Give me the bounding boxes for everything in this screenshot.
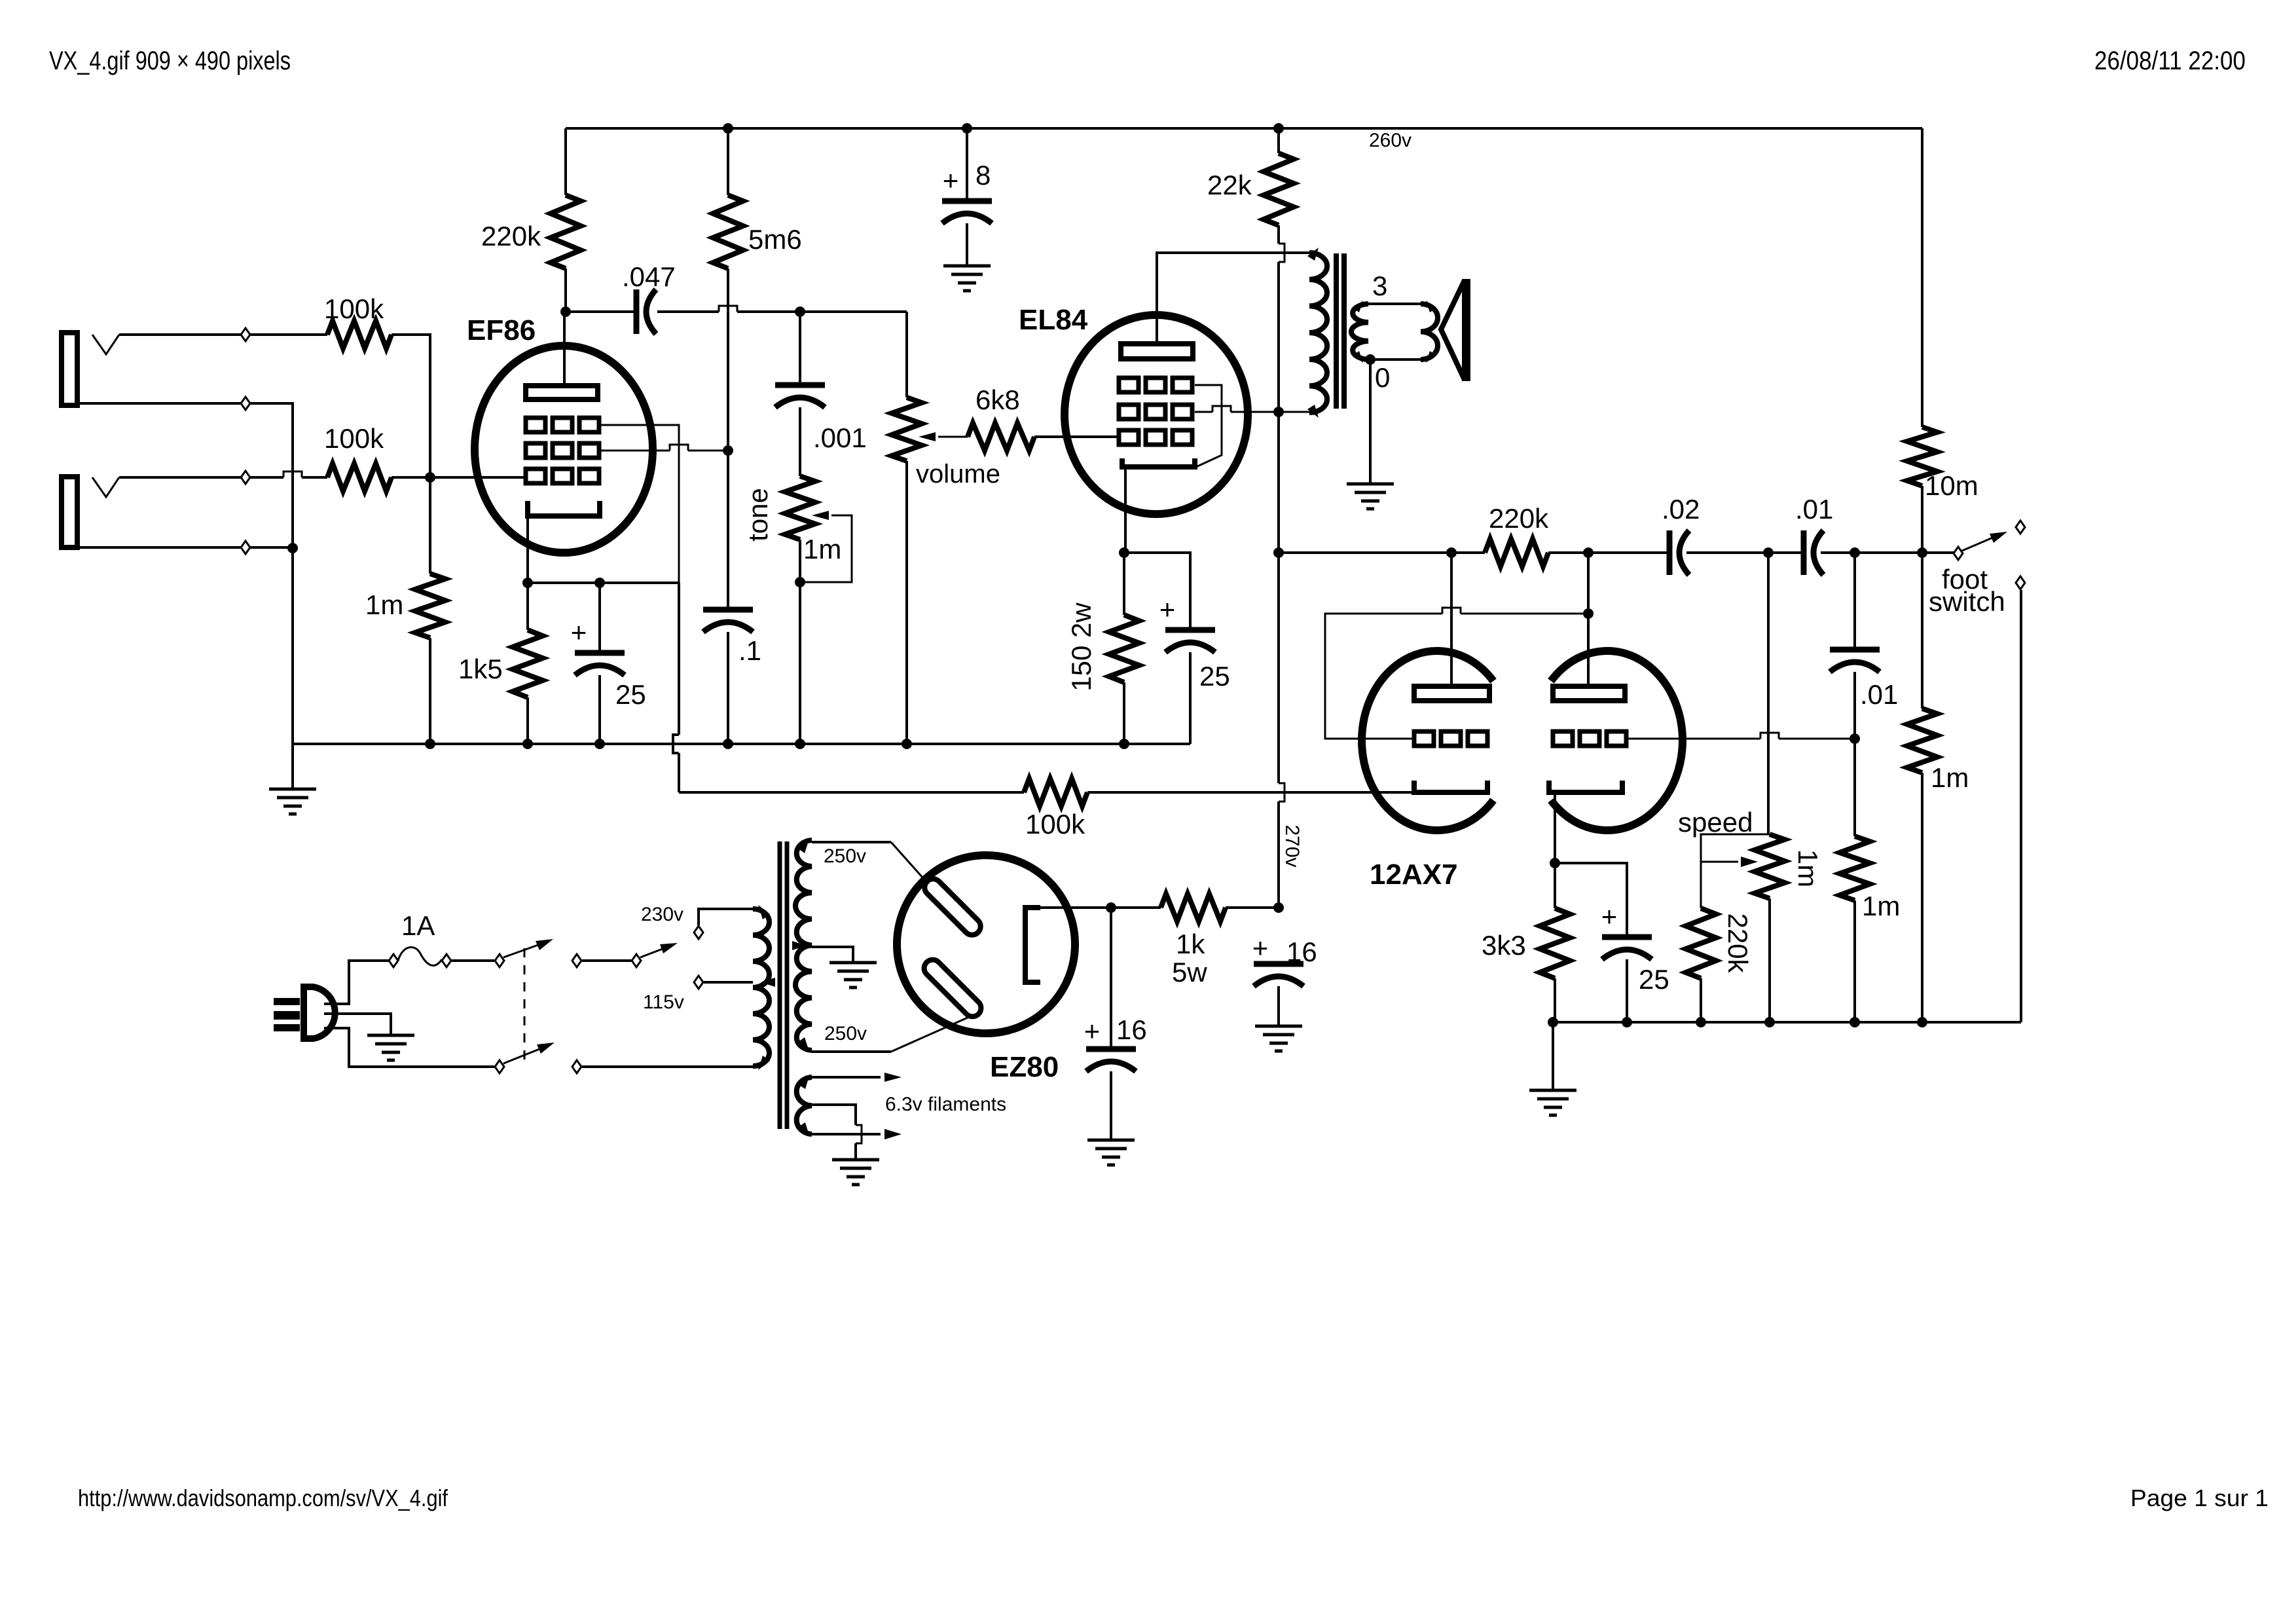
node junction EL84 cathode <box>1119 547 1129 558</box>
wire 5m6 top <box>727 128 729 195</box>
node tbus/1m lower <box>1850 1017 1860 1027</box>
wire cathode bus y=890 <box>528 581 679 584</box>
svg-text:270v: 270v <box>1281 824 1303 867</box>
fuse F 1A <box>389 947 451 967</box>
wire speed pot to bus <box>1768 898 1771 1022</box>
wire speed col <box>1767 553 1770 834</box>
svg-text:16: 16 <box>1286 936 1317 967</box>
label 1m (grid leak) <box>365 589 403 620</box>
ground symbol (16uF first) <box>1087 1140 1135 1165</box>
svg-text:.01: .01 <box>1860 679 1898 710</box>
resistor R 1m (lower) <box>1840 836 1870 900</box>
svg-text:1k5: 1k5 <box>458 654 503 684</box>
node trem/left plate <box>1446 547 1457 558</box>
svg-text:250v: 250v <box>824 845 866 867</box>
wire 220k speed to bus <box>1700 978 1702 1022</box>
label 1m (tone pot) <box>803 534 841 564</box>
svg-text:Page 1 sur 1: Page 1 sur 1 <box>2130 1485 2269 1511</box>
resistor R 5m6 (screen feed) <box>713 195 743 268</box>
transformer PT core <box>780 841 787 1129</box>
label .01 (shunt) <box>1860 679 1898 710</box>
wire feedback line y=1210 <box>679 791 1414 794</box>
EZ80 cathode bracket <box>1025 908 1040 982</box>
label + (25uF 12AX7) <box>1601 901 1618 932</box>
label + (25uF EF86) <box>571 617 587 648</box>
svg-text:25: 25 <box>1199 661 1230 692</box>
wire filament bottom tap <box>798 1122 902 1139</box>
node bus/1m <box>425 739 435 749</box>
node junction 5m6 / EF86 g2 <box>723 445 733 456</box>
resistor R 1k 5w <box>1161 894 1226 921</box>
svg-text:220k: 220k <box>1489 503 1549 534</box>
wire 1m lower ends <box>1853 739 1856 1022</box>
wire 115v tap <box>704 981 753 984</box>
resistor R 3k3 <box>1540 908 1570 978</box>
node junction g1 / 1m grid leak <box>425 472 435 483</box>
voltage selector 115v contact <box>694 976 703 989</box>
volume pot wiper arrow <box>919 432 968 441</box>
resistor R 100k feedback <box>1024 779 1087 806</box>
tube left plate <box>1414 686 1489 701</box>
svg-text:volume: volume <box>916 460 1000 489</box>
wire jack2 sleeve <box>77 546 293 549</box>
capacitor C 16uF first <box>1086 1049 1136 1071</box>
wire filament top tap <box>798 1073 902 1089</box>
svg-text:100k: 100k <box>324 293 384 324</box>
svg-text:1m: 1m <box>803 534 841 564</box>
svg-text:.047: .047 <box>622 261 676 292</box>
label 5w <box>1172 957 1207 987</box>
label + (25uF EL84) <box>1159 594 1176 625</box>
wire 1k5 ends <box>526 583 529 744</box>
wire right grid to .01 col <box>1625 733 1855 739</box>
ground symbol (main bus) <box>269 789 316 814</box>
svg-text:.01: .01 <box>1795 494 1833 525</box>
label 3 (speaker tap) <box>1372 270 1387 301</box>
label 260v <box>1369 130 1412 151</box>
svg-text:220k: 220k <box>481 221 541 251</box>
tube EL84 plate <box>1121 344 1193 359</box>
wire to 1k resistor <box>1111 906 1161 909</box>
wire +8 cap to ground <box>966 223 968 266</box>
tube V1 EF86 envelope <box>475 346 653 553</box>
wire switch out bottom <box>572 1060 753 1073</box>
terminal diamond jack1 tip <box>241 328 250 341</box>
transformer PT primary winding <box>753 909 769 1066</box>
wire EF86 plate stem <box>563 312 566 386</box>
transformer PT filament winding <box>797 1077 812 1134</box>
wire 100k#1 to g1 column <box>392 335 430 477</box>
speaker coupling arcs <box>1421 301 1438 363</box>
node junction sleeves <box>287 543 298 553</box>
tube V3b 12AX7 right envelope <box>1551 651 1683 830</box>
label tone (rotated) <box>742 488 773 542</box>
svg-text:16: 16 <box>1116 1014 1147 1045</box>
tube V3a 12AX7 left envelope <box>1362 651 1493 830</box>
label .02 <box>1662 494 1700 525</box>
input jack J2 body <box>62 477 77 547</box>
node junction top rail / 5m6 <box>723 123 733 134</box>
wire cathode to 25uF <box>1555 863 1627 937</box>
switch S1a arm <box>503 939 553 957</box>
wire 16uF second leads <box>1277 986 1280 1026</box>
label EL84 <box>1019 304 1088 336</box>
tube EF86 grid g2 row <box>526 443 599 458</box>
wire EF86 cathode stem <box>526 516 529 583</box>
svg-text:speed: speed <box>1678 807 1753 838</box>
ground symbol (HV center tap) <box>829 963 877 987</box>
svg-text:100k: 100k <box>1025 809 1085 840</box>
potentiometer speed 1m <box>1755 834 1785 898</box>
switch S1a pole <box>495 954 504 967</box>
resistor R 10m <box>1907 427 1937 486</box>
EZ80 anode plate lower <box>920 956 985 1020</box>
wire 16uF first leads <box>1110 908 1112 1140</box>
node junction top rail / 22k <box>1273 123 1284 134</box>
wire 22k bottom long column <box>1279 225 1285 908</box>
svg-text:6.3v filaments: 6.3v filaments <box>885 1094 1006 1115</box>
wire corner down to volume pot <box>905 312 908 397</box>
resistor R 22k <box>1264 153 1294 225</box>
wire 5m6 bottom to g2 node <box>727 268 729 451</box>
node trem/10m col <box>1917 547 1927 558</box>
svg-text:150 2w: 150 2w <box>1066 602 1097 692</box>
svg-text:220k: 220k <box>1722 913 1753 973</box>
tube left cathode <box>1414 781 1487 792</box>
svg-text:.1: .1 <box>738 635 761 666</box>
label 230v <box>641 904 683 925</box>
wire 3k3 ends <box>1554 863 1556 1022</box>
label 115v <box>643 991 684 1013</box>
wire jack1 sleeve <box>77 403 293 549</box>
capacitor C 25uF cathode bypass <box>575 653 625 675</box>
svg-text:0: 0 <box>1375 362 1390 393</box>
transformer OT primary winding <box>1309 253 1327 413</box>
page header right: date <box>2094 46 2246 75</box>
svg-text:+: + <box>571 617 587 648</box>
wire EL84 25uF top <box>1124 553 1190 630</box>
svg-text:http://www.davidsonamp.com/sv/: http://www.davidsonamp.com/sv/VX_4.gif <box>78 1485 448 1511</box>
node junction 270v <box>1273 902 1284 913</box>
label 1A <box>401 910 435 941</box>
resistor R 220k (EF86 plate load) <box>551 195 581 268</box>
wire speed top tie <box>1701 834 1770 908</box>
svg-text:3: 3 <box>1372 270 1387 301</box>
label 250v (bottom) <box>824 1023 867 1044</box>
svg-text:5m6: 5m6 <box>748 224 802 255</box>
svg-text:250v: 250v <box>824 1023 867 1044</box>
wire 6k8 to EL84 g1 <box>1034 435 1119 438</box>
node right grid line / .01 <box>1850 733 1860 744</box>
label 25 (EL84 bypass) <box>1199 661 1230 692</box>
foot switch lower contact <box>2016 576 2025 589</box>
svg-text:100k: 100k <box>324 423 384 454</box>
switch S1b pole <box>495 1060 504 1073</box>
capacitor C .02 <box>1669 530 1689 575</box>
svg-text:+: + <box>1252 932 1269 963</box>
wire 100k#2 to EF86 g1 <box>392 476 528 479</box>
wire right cathode stem <box>1554 792 1556 863</box>
svg-text:tone: tone <box>742 488 773 542</box>
mains plug prongs <box>274 998 300 1031</box>
wire EL84 g2 to OT <box>1195 406 1309 412</box>
label 150 2w (rotated) <box>1066 602 1097 692</box>
node tbus/speed <box>1764 1017 1775 1027</box>
transformer OT secondary winding <box>1351 304 1368 360</box>
transformer OT core <box>1336 253 1344 409</box>
wire bus left end down <box>291 744 294 789</box>
resistor R 1k5 cathode bias <box>513 630 543 697</box>
svg-text:1m: 1m <box>1793 849 1823 887</box>
label + (16uF first) <box>1084 1016 1101 1046</box>
capacitor C .01 series <box>1804 530 1823 575</box>
OT secondary arrows <box>1353 301 1363 363</box>
node junction cathode / 1k5 <box>522 578 533 588</box>
label 1m (right upper) <box>1931 762 1969 793</box>
resistor R 150 2w cathode <box>1109 615 1139 682</box>
label 16 (first) <box>1116 1014 1147 1045</box>
ground symbol (speaker return) <box>1347 484 1394 509</box>
node trem/22k col <box>1273 547 1284 558</box>
wire 220k top <box>564 128 567 195</box>
label 220k (speed, rotated) <box>1722 913 1753 973</box>
resistor R 1m grid leak <box>415 574 445 638</box>
svg-text:12AX7: 12AX7 <box>1370 858 1458 891</box>
speed pot wiper arrow <box>1701 857 1758 867</box>
svg-text:230v: 230v <box>641 904 683 925</box>
OT primary top arrow <box>1307 248 1319 261</box>
label 1m (lower) <box>1862 891 1900 921</box>
wire volume pot to ground bus <box>905 461 908 744</box>
node bus/volume <box>902 739 912 749</box>
svg-text:switch: switch <box>1929 586 2005 617</box>
node bus/tone <box>795 739 805 749</box>
node trem/.01 col <box>1850 547 1860 558</box>
label + (8uF) <box>943 165 959 196</box>
svg-text:EZ80: EZ80 <box>990 1051 1059 1083</box>
tube EL84 g3 row <box>1119 378 1192 392</box>
wire fuse to switch <box>452 959 494 962</box>
capacitor C 25uF EL84 bypass <box>1165 630 1215 652</box>
wire tremolo line <box>1279 551 1958 554</box>
foot switch arm <box>1962 532 2007 551</box>
label 220k <box>481 221 541 251</box>
tube right cathode <box>1549 781 1622 792</box>
page footer right: page number <box>2130 1485 2269 1511</box>
svg-text:EL84: EL84 <box>1019 304 1088 336</box>
capacitor C .01 shunt <box>1830 650 1880 672</box>
label 22k <box>1207 170 1252 200</box>
label 250v (top) <box>824 845 866 867</box>
label 270v (rotated) <box>1281 824 1303 867</box>
label 6k8 <box>975 384 1020 415</box>
svg-text:.02: .02 <box>1662 494 1700 525</box>
svg-text:1k: 1k <box>1176 929 1205 959</box>
wire 220k bottom to plate node <box>564 268 567 312</box>
label 5m6 <box>748 224 802 255</box>
svg-text:3k3: 3k3 <box>1482 930 1526 961</box>
wire ground bus <box>293 743 1190 745</box>
svg-text:25: 25 <box>615 679 646 710</box>
node trem/speed col <box>1763 547 1774 558</box>
wire g2 node to .1 cap <box>727 451 729 610</box>
wire plug neutral <box>324 1028 494 1067</box>
label 0 (speaker tap) <box>1375 362 1390 393</box>
svg-text:+: + <box>1159 594 1176 625</box>
wire EF86 g3 to cathode column <box>600 425 679 583</box>
capacitor C .1 decoupling <box>703 610 753 632</box>
speaker LS1 <box>1441 279 1470 381</box>
wire HV center tap <box>812 947 853 963</box>
terminal diamond jack2 tip <box>241 471 250 484</box>
wire switch out top <box>572 954 631 967</box>
tube V4 EZ80 envelope <box>897 855 1075 1033</box>
wire plug live <box>324 961 393 1004</box>
node junction .047 line / tone branch <box>795 306 805 317</box>
label .001 <box>813 422 867 453</box>
thin lead 250v to EZ80 upper plate <box>891 842 928 884</box>
OT primary bottom arrow <box>1307 405 1319 418</box>
node bus/.1 <box>723 739 733 749</box>
PT HV arrows <box>792 839 809 1052</box>
wire tbus to ground <box>1552 1022 1554 1090</box>
wire 25uF 12AX7 bottom <box>1626 959 1628 1022</box>
wire 0 tap to ground <box>1369 360 1372 484</box>
page footer left: url <box>78 1485 448 1511</box>
terminal diamond jack1 sleeve <box>241 397 250 410</box>
node bus/1k5 <box>522 739 533 749</box>
svg-text:+: + <box>1601 901 1618 932</box>
svg-text:5w: 5w <box>1172 957 1207 987</box>
svg-text:1m: 1m <box>1862 891 1900 921</box>
label 100k (input 2) <box>324 423 384 454</box>
label 8 <box>975 160 991 191</box>
capacitor C 16uF second <box>1254 964 1303 986</box>
capacitor C .001 tone <box>775 385 825 407</box>
svg-text:26/08/11 22:00: 26/08/11 22:00 <box>2094 46 2246 75</box>
input jack J1 body <box>62 333 77 405</box>
tube EF86 grid g1 row <box>526 469 599 483</box>
wire 10m to 1m column <box>1921 486 1923 709</box>
wire 10m top <box>1921 128 1923 427</box>
potentiometer volume <box>892 397 922 461</box>
node EF86 plate junction <box>560 306 571 317</box>
wire HV bottom 250v tap <box>812 1050 891 1053</box>
svg-text:EF86: EF86 <box>467 314 536 346</box>
tube V2 EL84 envelope <box>1065 315 1248 514</box>
label 100k (input 1) <box>324 293 384 324</box>
node tbus/25uF <box>1622 1017 1632 1027</box>
wire plug earth <box>324 1014 391 1035</box>
node tbus/3k3 <box>1548 1017 1558 1027</box>
wire 22k top <box>1277 128 1280 153</box>
label 10m <box>1925 470 1978 501</box>
svg-text:25: 25 <box>1639 964 1669 995</box>
svg-text:1m: 1m <box>1931 762 1969 793</box>
svg-text:1m: 1m <box>365 589 403 620</box>
tube right grid row <box>1553 731 1626 746</box>
label EZ80 <box>990 1051 1059 1083</box>
wire EL84 plate stem and top lead <box>1157 253 1309 344</box>
label switch <box>1929 586 2005 617</box>
node junction top rail / +8 cap <box>962 123 972 134</box>
wire tone branch top <box>799 312 801 382</box>
label 100k (feedback) <box>1025 809 1085 840</box>
terminal diamond jack2 sleeve <box>241 541 250 554</box>
ground symbol (filament CT) <box>832 1160 879 1185</box>
node junction EZ80 out / 16uF <box>1106 902 1116 913</box>
voltage selector 230v contact <box>694 926 703 939</box>
wire OT secondary bottom to speaker <box>1368 358 1421 361</box>
wire EL84 g3 bracket to cathode <box>1195 385 1222 467</box>
wire foot switch down <box>2020 590 2022 1022</box>
tube EF86 grid g3 row <box>526 418 599 432</box>
input jack J1 tip contact <box>92 335 119 354</box>
node tbus/1m upper <box>1917 1017 1927 1027</box>
label + (16uF second) <box>1252 932 1269 963</box>
label 1k <box>1176 929 1205 959</box>
node junction cathode / 25uF <box>594 578 605 588</box>
tube EF86 plate <box>526 386 598 399</box>
tube EL84 g1 row <box>1119 430 1192 445</box>
label 1m (speed pot, rotated) <box>1793 849 1823 887</box>
tube EL84 cathode <box>1122 458 1195 467</box>
wire left plate stem <box>1450 553 1453 686</box>
thin lead 250v to EZ80 lower plate <box>891 1015 974 1052</box>
wire feedback right plate to left grid <box>1325 608 1588 739</box>
resistor R 100k input 1 <box>327 321 392 348</box>
foot switch pole diamond <box>1954 547 1963 560</box>
tube left grid row <box>1414 731 1487 746</box>
PT primary arrows <box>758 905 775 1070</box>
wire +8 cap top <box>966 128 968 201</box>
label 25 (EF86 bypass) <box>615 679 646 710</box>
wire EF86 plate node <box>566 306 907 312</box>
page header left: filename <box>49 46 291 75</box>
label 25 (12AX7) <box>1639 964 1669 995</box>
wire g3 feedback column below bus <box>673 583 679 792</box>
wire right plate stem <box>1587 553 1590 686</box>
node bus/25uF <box>594 739 605 749</box>
label .1 <box>738 635 761 666</box>
wire sleeve down to ground bus <box>291 549 294 744</box>
wire HV top 250v tap <box>812 841 891 843</box>
label 1k5 <box>458 654 503 684</box>
wire EL84 cathode stem <box>1124 467 1127 553</box>
label speed <box>1678 807 1753 838</box>
wire 1k to 270v node <box>1226 906 1279 909</box>
wire .001 to tone pot <box>799 407 801 476</box>
svg-text:115v: 115v <box>643 991 684 1013</box>
svg-text:+: + <box>1084 1016 1101 1046</box>
wire EF86 g2 to 5m6 node <box>600 445 728 451</box>
input jack J2 tip contact <box>92 477 119 497</box>
capacitor C 8uF electrolytic <box>942 201 992 223</box>
node tbus/220k <box>1696 1017 1706 1027</box>
label 16 (second) <box>1286 936 1317 967</box>
tone pot wiper arrow <box>800 511 852 582</box>
label foot <box>1942 564 1988 595</box>
mains plug body <box>304 987 335 1039</box>
wire .1 cap to ground bus <box>727 632 729 744</box>
label 3k3 <box>1482 930 1526 961</box>
wire top B+ rail <box>566 127 1922 130</box>
label .01 (series) <box>1795 494 1833 525</box>
svg-text:22k: 22k <box>1207 170 1252 200</box>
svg-text:.001: .001 <box>813 422 867 453</box>
switch gang dashed link <box>524 948 526 1064</box>
wire 25uF ends <box>598 583 601 744</box>
